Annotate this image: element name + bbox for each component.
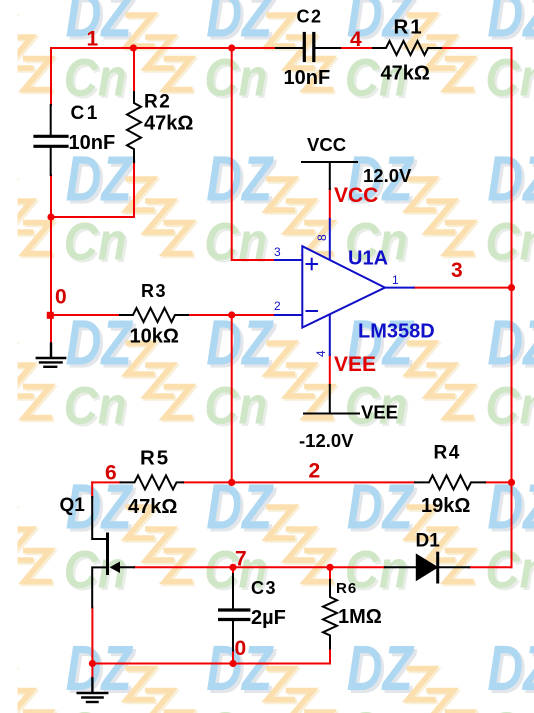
svg-text:0: 0 <box>55 286 67 309</box>
svg-text:VEE: VEE <box>361 402 398 423</box>
svg-text:C1: C1 <box>71 103 100 124</box>
svg-text:VCC: VCC <box>307 134 346 155</box>
junction bottom rail left <box>89 660 96 667</box>
capacitor C1 <box>35 105 67 175</box>
wire bottom rail <box>92 663 330 665</box>
VEE power symbol <box>304 385 359 414</box>
junction C1 bottom <box>47 213 54 220</box>
wire net 2 horizontal mid <box>182 481 415 483</box>
svg-text:47kΩ: 47kΩ <box>128 496 177 518</box>
svg-text:1: 1 <box>87 27 99 50</box>
svg-text:R3: R3 <box>141 281 167 301</box>
svg-text:U1A: U1A <box>348 248 388 270</box>
svg-text:12.0V: 12.0V <box>363 165 412 186</box>
wire node 4 segment <box>340 47 374 49</box>
junction net 2 vertical <box>228 479 235 486</box>
svg-text:7: 7 <box>235 548 247 571</box>
wire D1 to right rail <box>469 566 512 568</box>
wire C3 bottom stub <box>232 651 234 664</box>
resistor R5 <box>121 475 184 489</box>
wire R6 bottom stub <box>329 649 331 664</box>
svg-text:R6: R6 <box>336 580 357 597</box>
svg-text:3: 3 <box>274 245 281 259</box>
capacitor C3 <box>220 574 249 651</box>
svg-text:10nF: 10nF <box>69 132 116 154</box>
svg-text:8: 8 <box>315 234 329 241</box>
wire VCC red segment <box>329 189 331 219</box>
wire node 0 to R3 <box>51 314 120 316</box>
svg-text:VCC: VCC <box>334 184 378 207</box>
svg-text:R5: R5 <box>140 447 170 470</box>
wire noninverting branch <box>232 48 275 260</box>
resistor R4 <box>415 475 485 489</box>
wire inverting down to net 2 <box>231 315 233 482</box>
svg-text:10nF: 10nF <box>284 67 331 89</box>
svg-text:0: 0 <box>235 637 247 660</box>
wire Q1 source red <box>91 607 93 678</box>
resistor R3 <box>120 308 188 322</box>
wire top right + right rail <box>441 48 512 567</box>
svg-text:C3: C3 <box>251 578 277 598</box>
wire C3 top stub <box>232 567 234 574</box>
svg-text:6: 6 <box>105 462 117 485</box>
junction output net 3 <box>508 284 515 291</box>
svg-text:1MΩ: 1MΩ <box>338 606 382 628</box>
junction inverting input <box>228 311 235 318</box>
wire net 7 mid <box>134 566 385 568</box>
junction top noninverting branch <box>228 44 235 51</box>
svg-text:2: 2 <box>274 299 281 313</box>
Q1 gate arrow <box>111 562 120 572</box>
svg-text:19kΩ: 19kΩ <box>421 495 470 517</box>
svg-text:2: 2 <box>309 460 321 483</box>
svg-text:C2: C2 <box>297 7 323 27</box>
text layer <box>55 7 470 661</box>
svg-text:R1: R1 <box>394 16 424 39</box>
junction bottom rail C3 <box>229 660 236 667</box>
op-amp U1A <box>275 219 414 355</box>
wire op-amp output net 3 <box>414 287 512 289</box>
diode D1 <box>385 553 469 582</box>
svg-text:47kΩ: 47kΩ <box>381 63 430 85</box>
svg-text:4: 4 <box>350 28 362 51</box>
svg-text:4: 4 <box>314 350 328 357</box>
wire node 6 drop <box>91 482 93 497</box>
svg-text:1: 1 <box>392 273 399 287</box>
svg-text:10kΩ: 10kΩ <box>130 326 179 348</box>
svg-text:3: 3 <box>451 259 463 282</box>
wire R2 top stub <box>133 48 135 92</box>
svg-text:LM358D: LM358D <box>358 321 435 343</box>
node 1 junction <box>130 44 137 51</box>
ground (node 0 left) <box>37 344 65 367</box>
node 0 junction <box>47 312 54 319</box>
svg-text:VEE: VEE <box>334 353 376 376</box>
ground (bottom) <box>78 678 108 702</box>
junction net 7 R6 <box>326 564 333 571</box>
junction net 7 C3 <box>229 564 236 571</box>
wire R6 top stub <box>329 567 331 580</box>
VCC power symbol <box>302 162 357 189</box>
wire R2 bottom stub <box>133 162 135 217</box>
capacitor C2 <box>276 34 340 61</box>
svg-text:R2: R2 <box>144 92 171 113</box>
wire loop bottom (C1-R2) <box>51 216 134 218</box>
resistor R1 <box>373 41 441 55</box>
wire net 2 to right rail <box>485 481 512 483</box>
wire left rail upper <box>50 48 52 105</box>
wire net 2 horizontal left <box>92 481 120 483</box>
svg-text:Q1: Q1 <box>60 495 86 516</box>
svg-text:47kΩ: 47kΩ <box>144 113 193 135</box>
svg-text:R4: R4 <box>434 443 461 464</box>
svg-text:D1: D1 <box>416 531 441 552</box>
svg-text:-12.0V: -12.0V <box>299 430 354 451</box>
wire left rail mid <box>50 175 52 342</box>
svg-text:2µF: 2µF <box>251 607 286 629</box>
junction net 2 right rail <box>508 479 515 486</box>
resistor R2 <box>127 92 141 162</box>
wire R3 to inverting input <box>188 314 275 316</box>
transistor Q1 <box>92 497 134 607</box>
wire VEE red segment <box>329 355 331 385</box>
resistor R6 <box>323 580 337 648</box>
wire top rail left (net 1) <box>51 47 276 49</box>
